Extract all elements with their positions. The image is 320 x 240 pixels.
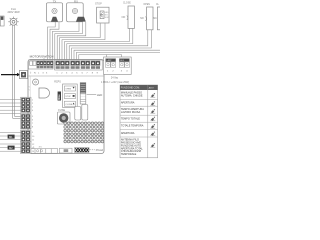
motor M2 wires <box>0 144 21 151</box>
edge button (cut off) <box>153 4 163 30</box>
svg-text:NO: NO <box>122 16 126 19</box>
svg-text:1 MOA = +24V (max 25W): 1 MOA = +24V (max 25W) <box>101 81 129 84</box>
wire open a <box>69 30 148 60</box>
inset terminal box <box>104 57 132 74</box>
svg-text:OPEN: OPEN <box>65 89 71 91</box>
row texts <box>121 91 144 156</box>
svg-text:NO: NO <box>140 17 144 20</box>
svg-text:MOTOR/SWITCH: MOTOR/SWITCH <box>30 54 54 58</box>
wall bracket box <box>0 16 4 26</box>
row separators <box>120 100 158 137</box>
jumper dashed label <box>89 149 95 151</box>
legend table <box>120 85 158 158</box>
svg-text:FUSE: FUSE <box>58 108 65 112</box>
svg-text:AUTOMA. CHIUDE: AUTOMA. CHIUDE <box>121 94 143 97</box>
svg-text:SIG2: SIG2 <box>105 17 109 19</box>
left terminal column 3 (motor M1) <box>21 130 31 142</box>
wire open b <box>72 30 152 60</box>
svg-text:OPEN: OPEN <box>143 4 150 6</box>
row icons <box>150 93 155 147</box>
svg-text:APERTURA: APERTURA <box>121 102 135 105</box>
wire offscreen b <box>76 52 160 60</box>
wire RX a <box>52 22 79 60</box>
lamp pole wire (double line) <box>13 25 21 118</box>
board inner left line <box>29 76 31 146</box>
table header <box>120 85 158 90</box>
svg-text:NC: NC <box>153 17 157 20</box>
transformer dot grid <box>64 122 104 143</box>
wire inset b <box>107 55 122 57</box>
svg-text:CLOSE: CLOSE <box>65 104 72 106</box>
stop button S1 <box>95 2 109 23</box>
wire inset a <box>79 55 107 61</box>
svg-text:STOP: STOP <box>65 96 71 98</box>
svg-text:TOTALE TEMPORA: TOTALE TEMPORA <box>121 125 144 128</box>
inset caption <box>101 76 129 83</box>
wire RX b <box>55 22 83 60</box>
svg-text:APERTURA: APERTURA <box>121 132 135 135</box>
svg-text:PIGtail: PIGtail <box>96 149 104 152</box>
flashing lamp FL label <box>7 7 20 14</box>
button panel <box>63 84 78 108</box>
control board outline <box>28 60 104 154</box>
svg-text:STOP: STOP <box>95 2 102 5</box>
svg-text:M2: M2 <box>9 146 13 150</box>
jumper block XXXX <box>75 148 89 153</box>
left input wires bundle A <box>0 99 21 113</box>
relay capsule <box>39 88 50 98</box>
mains cable (thick) <box>1 73 20 76</box>
svg-text:Nice: Nice <box>58 94 61 100</box>
motor M1 wires <box>0 132 21 139</box>
relay boxes <box>75 105 88 121</box>
open button <box>140 4 153 30</box>
wire nest <box>48 22 161 60</box>
svg-text:LAMP: LAMP <box>107 59 113 62</box>
svg-text:FUNZIONE COM.: FUNZIONE COM. <box>121 87 140 90</box>
wire TX b <box>50 22 59 60</box>
wire offscreen a <box>74 50 160 60</box>
svg-text:CLOSE: CLOSE <box>123 3 131 5</box>
wire close a <box>64 29 129 61</box>
wire RX c <box>57 22 86 60</box>
LED label <box>87 94 97 96</box>
pin header <box>80 83 86 104</box>
svg-text:RCPS: RCPS <box>54 80 61 83</box>
left terminal numbers <box>32 99 35 153</box>
cable gland <box>20 70 28 78</box>
svg-text:TEMPORALE: TEMPORALE <box>121 153 137 156</box>
AC marks <box>29 86 31 92</box>
svg-text:24 Vac: 24 Vac <box>111 76 119 79</box>
close button <box>122 3 135 29</box>
flashing lamp FL <box>8 17 19 26</box>
motor M1 tag <box>8 135 15 139</box>
left terminal column 4 (motor M2) <box>21 142 31 154</box>
wire close b <box>67 29 133 61</box>
left mains terminal block <box>28 60 53 69</box>
svg-text:LAVORO PAUSA: LAVORO PAUSA <box>121 111 141 114</box>
bottom board row <box>29 146 42 149</box>
photocell TX <box>46 0 62 22</box>
wire TX a <box>48 22 56 60</box>
motor M2 tag <box>8 146 15 150</box>
photocell RX <box>67 0 86 22</box>
top terminal strip <box>55 60 103 70</box>
svg-text:M1: M1 <box>9 135 13 139</box>
svg-text:TEMPO TOTALE: TEMPO TOTALE <box>121 117 140 120</box>
Nice logo <box>58 92 61 101</box>
left terminal column 1 <box>21 97 31 112</box>
svg-text:AZIO: AZIO <box>149 87 154 90</box>
wire stop a <box>60 23 101 60</box>
buzzer <box>33 79 39 85</box>
svg-text:230V 40W: 230V 40W <box>7 10 20 14</box>
board inner top line <box>28 75 103 77</box>
svg-text:LED: LED <box>97 93 102 97</box>
wire stop b <box>62 23 105 60</box>
left terminal column 2 <box>21 114 31 129</box>
